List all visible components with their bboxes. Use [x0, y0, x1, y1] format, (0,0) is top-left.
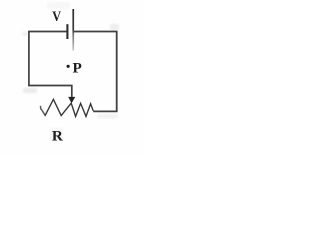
- wire right branch: battery to top-right corner, right side down, bottom-right to resistor end: [74, 32, 117, 112]
- svg-text:V: V: [52, 9, 61, 25]
- node P dot: [67, 65, 70, 68]
- svg-text:R: R: [52, 127, 64, 144]
- battery V short plate: [66, 24, 68, 39]
- resistor R zigzag: [41, 99, 94, 116]
- resistor left-end lighter overdraw: [41, 106, 45, 115]
- battery V long plate: [72, 9, 74, 51]
- svg-text:P: P: [73, 59, 82, 76]
- scan artifacts: [22, 2, 119, 141]
- wiper arrowhead: [68, 97, 75, 103]
- wire left branch: top wire to battery, left side, middle horizontal, wiper stem: [29, 32, 72, 98]
